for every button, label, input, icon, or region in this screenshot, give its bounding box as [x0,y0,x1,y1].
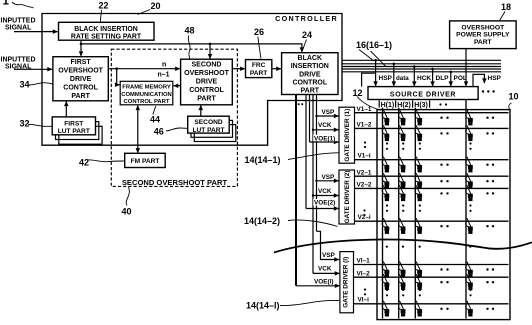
dots between trunks [298,103,303,105]
wire VSP driver2 [317,180,339,182]
row labels driver1 [357,106,372,160]
row labels driver l [357,258,371,304]
column data lines [383,100,467,319]
wire frame memory comm to FM part [137,106,139,153]
label 46 [154,126,187,136]
wire VCK driver l [313,272,339,274]
svg-text:V2–1: V2–1 [357,169,372,176]
label INPUTTED SIGNAL (second) [1,57,36,71]
svg-text:DRIVE: DRIVE [196,78,218,85]
pixel cells row V1-i [382,157,494,172]
svg-text:PART: PART [197,95,216,102]
svg-text:PART: PART [474,39,493,46]
label 16(16-1) [356,40,392,67]
svg-text:44: 44 [150,114,160,124]
svg-text:10: 10 [509,92,519,102]
svg-text:26: 26 [254,27,264,37]
svg-text:LUT PART: LUT PART [58,128,90,135]
svg-text:RATE SETTING PART: RATE SETTING PART [71,33,142,40]
wire inputted signal 1 [14,31,58,33]
svg-text:48: 48 [185,26,195,36]
svg-text:V1–2: V1–2 [357,122,372,129]
bus drop HSP [375,60,377,86]
label INPUTTED SIGNAL (top) [1,18,36,32]
svg-text:BLACK INSERTION: BLACK INSERTION [74,26,138,33]
controller box 20 outline [42,14,342,146]
label 14(14-l) [246,300,339,310]
wire n first to second [108,68,180,70]
svg-text:VSP: VSP [322,174,336,181]
svg-text:Vl–2: Vl–2 [357,270,371,277]
dots right of source driver [482,90,495,92]
svg-text:CONTROL: CONTROL [63,84,98,91]
svg-text:OVERSHOOT: OVERSHOOT [184,70,229,77]
panel box 10 [377,110,510,320]
label 14(14-2) [244,216,338,227]
svg-text:16(16–1): 16(16–1) [356,40,392,50]
label 44 [150,106,160,124]
label 18 [500,2,512,21]
svg-text:INPUTTED: INPUTTED [1,18,36,25]
wire inputted signal 2 [14,68,52,70]
label 42 [79,158,124,168]
svg-text:VSP: VSP [322,109,336,116]
svg-text:GATE DRIVER (1): GATE DRIVER (1) [344,109,351,162]
wire second to FRC [232,68,245,70]
junction dot n wire [115,67,118,70]
svg-text:FRAME MEMORY: FRAME MEMORY [122,85,171,91]
svg-text:V2–2: V2–2 [357,182,372,189]
wire VCK driver2 [313,195,339,197]
label 26 [254,27,264,59]
svg-text:22: 22 [99,0,109,10]
figure number 1 leader [3,0,34,8]
pixel cells row V1-2 [382,125,494,140]
control trunks from box 24 [296,95,317,286]
svg-text:PART: PART [250,70,267,77]
svg-text:DRIVE: DRIVE [70,76,92,83]
svg-text:HSP: HSP [379,75,393,82]
box 34 FIRST OVERSHOOT DRIVE CONTROL PART [53,57,108,101]
pixel cells row V1-1 [382,110,494,125]
svg-text:SOURCE DRIVER: SOURCE DRIVER [390,91,456,98]
svg-text:CONTROL: CONTROL [189,87,224,94]
svg-text:OVERSHOOT: OVERSHOOT [58,67,103,74]
box 26 FRC PART [246,60,272,78]
box 24 BLACK INSERTION DRIVE CONTROL PART [282,53,338,95]
label 22 [99,0,109,22]
svg-text:Vl–i: Vl–i [358,296,370,303]
svg-text:VCK: VCK [318,188,332,195]
first LUT stack shadows [56,122,103,145]
label 34 [20,80,53,90]
wire VSP driver1 [317,115,339,117]
label 10 [509,92,519,110]
svg-text:PART: PART [71,93,90,100]
wire second box to LUT [200,106,202,117]
svg-text:14(14–l): 14(14–l) [246,301,280,311]
svg-text:POWER SUPPLY: POWER SUPPLY [456,32,510,39]
HSP input staple [362,73,376,86]
svg-text:HCK: HCK [417,75,431,82]
gate row lines driver2 [355,176,509,221]
svg-text:VSP: VSP [322,252,336,259]
svg-text:V1–i: V1–i [358,153,371,160]
wire 22 down to first overshoot [80,40,82,56]
svg-text:46: 46 [154,126,164,136]
svg-text:18: 18 [501,2,511,12]
box 44 FRAME MEMORY COMMUNICATION CONTROL PART [120,81,173,105]
svg-text:SIGNAL: SIGNAL [5,25,32,32]
labels H(1) H(2) H(3) [379,100,429,109]
svg-text:INPUTTED: INPUTTED [1,57,36,64]
svg-text:34: 34 [20,80,30,90]
gate driver 1 box [339,107,355,163]
gate driver l box [340,252,354,313]
svg-text:CONTROLLER: CONTROLLER [275,14,338,23]
svg-text:CONTROL: CONTROL [292,80,327,87]
svg-text:COMMUNICATION: COMMUNICATION [121,92,172,98]
svg-text:POL: POL [454,75,467,82]
svg-text:40: 40 [122,207,132,217]
bus drop DLP [432,69,434,86]
box 22 BLACK INSERTION RATE SETTING PART [59,22,155,40]
pixel cells row V2-i [382,218,494,233]
svg-text:BLACK: BLACK [298,55,323,62]
svg-text:INSERTION: INSERTION [291,63,329,70]
wire VOE(1) driver1 [310,141,339,143]
box 12 SOURCE DRIVER [368,87,478,100]
svg-text:VOE(1): VOE(1) [314,135,335,142]
svg-text:24: 24 [302,30,312,40]
label 12 [353,88,382,110]
wire first box to LUT [65,102,67,117]
svg-text:32: 32 [20,119,30,129]
box 18 OVERSHOOT POWER SUPPLY PART [450,21,516,49]
svg-text:n: n [162,62,166,69]
svg-text:SECOND: SECOND [194,119,222,126]
svg-text:14(14–2): 14(14–2) [244,216,280,226]
svg-text:H(2): H(2) [397,102,411,109]
svg-text:FM PART: FM PART [131,158,160,165]
svg-text:LUT PART: LUT PART [192,127,224,134]
label 24 [302,30,312,48]
wire overshoot power to source driver [465,49,467,86]
svg-text:OVERSHOOT: OVERSHOOT [461,24,505,31]
dashed box 40 SECOND OVERSHOOT PART [111,49,237,186]
bus lines 16 [342,60,501,72]
wire VCK driver1 [313,129,339,131]
svg-text:VOE(l): VOE(l) [314,278,334,285]
svg-text:20: 20 [151,1,161,11]
svg-text:VCK: VCK [318,265,332,272]
pixel cells row Vl-1 [382,261,494,276]
label 32 [20,119,52,129]
pixel cells row Vl-i [382,301,494,316]
svg-text:FIRST: FIRST [70,59,91,66]
bus drop POL [450,72,452,86]
svg-text:HSP: HSP [488,75,502,82]
wire VSP driver l [317,231,340,259]
svg-text:SECOND OVERSHOOT PART: SECOND OVERSHOOT PART [122,178,228,187]
wavy break line [274,240,532,253]
bus drop data [393,64,395,86]
svg-text:GATE DRIVER (l): GATE DRIVER (l) [343,257,350,308]
wire 22 to black insertion drive [81,44,302,52]
box 42 FM PART [125,153,166,167]
svg-text:V1–1: V1–1 [357,106,372,113]
gate row lines driver l [354,265,509,304]
svg-text:Vl–1: Vl–1 [357,258,371,265]
dots after H(3) [439,103,447,105]
HSP cascade staple [473,74,484,86]
second LUT stack shadows [191,120,236,141]
break area dots [386,246,472,248]
svg-text:FRC: FRC [252,62,266,69]
svg-text:42: 42 [79,158,89,168]
wire n branch to frame memory comm [117,69,120,85]
svg-text:VOE(2): VOE(2) [314,200,335,207]
pixel cells row V2-1 [382,173,494,188]
svg-text:H(1): H(1) [381,102,395,109]
row labels driver2 [357,169,372,221]
label 48 [185,26,195,59]
junction dot [80,43,83,46]
gate row lines driver1 [355,113,509,160]
row gap dots [363,141,366,295]
svg-text:DLP: DLP [436,75,450,82]
svg-text:H(3): H(3) [414,102,428,109]
wire branch down to second overshoot [209,44,211,59]
label 20 [138,1,161,15]
box 32 FIRST LUT PART [52,117,95,135]
svg-text:FIRST: FIRST [64,120,83,127]
wire n-1 second to frame memory comm [174,85,181,87]
svg-text:1: 1 [3,0,10,8]
wire VOE(l) driver l [296,285,339,287]
svg-text:data: data [396,75,409,82]
label 40 [122,187,132,217]
svg-text:CONTROL PART: CONTROL PART [124,99,170,105]
svg-text:DRIVE: DRIVE [299,71,321,78]
bus drop HCK [413,67,415,87]
pixel cells row Vl-2 [382,274,494,289]
pixel cells row V2-2 [382,185,494,200]
svg-text:PART: PART [301,88,320,95]
label 14(14-1) [245,153,339,165]
column continuation dots [386,142,472,296]
box 46 SECOND LUT PART [188,116,230,134]
svg-text:VCK: VCK [318,122,332,129]
svg-text:GATE DRIVER (2): GATE DRIVER (2) [344,171,351,224]
svg-text:14(14–1): 14(14–1) [245,155,281,165]
gate driver 2 box [339,170,355,224]
svg-text:SECOND: SECOND [192,61,222,68]
box 48 SECOND OVERSHOOT DRIVE CONTROL PART [181,59,233,105]
svg-text:n–1: n–1 [158,72,170,79]
wire VOE(2) driver2 [306,208,339,210]
wire FRC to black insertion drive [272,68,281,70]
